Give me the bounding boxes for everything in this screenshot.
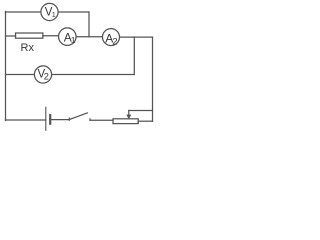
ammeter A1 (59, 28, 77, 46)
wire top-right (V1 to drop) (58, 11, 89, 13)
svg-text:Rx: Rx (21, 42, 35, 54)
wire left rail (5, 11, 7, 120)
wire battery to switch (50, 119, 69, 121)
wire V1 drop to A1-A2 node (88, 12, 90, 37)
voltmeter V2 (34, 66, 51, 83)
rheostat body (113, 119, 138, 124)
wire bottom-left (rail to battery) (6, 119, 46, 121)
wire wiper horizontal (129, 110, 153, 112)
switch left contact (68, 118, 70, 120)
wire A2 to right rail (119, 36, 152, 38)
wire wiper vertical (128, 111, 130, 116)
battery short plate (49, 115, 51, 124)
resistor Rx (16, 33, 43, 38)
switch arm (69, 113, 87, 120)
wire V2 branch vertical (133, 37, 135, 75)
wire V2 right (52, 74, 135, 76)
wire row2 left (rail to Rx) (6, 35, 16, 37)
svg-text:1: 1 (52, 10, 56, 19)
svg-text:1: 1 (71, 35, 76, 45)
wire A1 to A2 (76, 36, 103, 38)
voltmeter V1 (41, 3, 58, 20)
wiper arrowhead (126, 115, 131, 120)
wire V2 left (rail to V2) (6, 74, 35, 76)
wire right rail (152, 37, 154, 121)
wire Rx to A1 (43, 35, 59, 37)
switch right contact (89, 119, 91, 120)
wire switch to rheostat (90, 119, 113, 121)
wire top-left (rail to V1) (6, 11, 42, 13)
battery long plate (45, 107, 47, 130)
svg-text:2: 2 (44, 71, 49, 81)
wire rheostat to right rail (138, 120, 152, 122)
ammeter A2 (103, 29, 120, 46)
svg-text:2: 2 (112, 36, 117, 47)
